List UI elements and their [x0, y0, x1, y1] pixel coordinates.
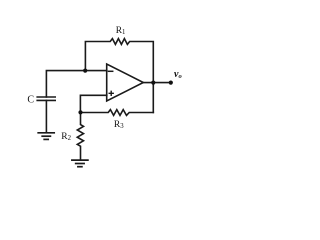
svg-text:C: C	[27, 94, 34, 105]
svg-text:R1: R1	[116, 26, 126, 36]
svg-text:R3: R3	[114, 120, 124, 130]
svg-text:vo: vo	[174, 69, 182, 80]
svg-text:R2: R2	[61, 132, 71, 142]
